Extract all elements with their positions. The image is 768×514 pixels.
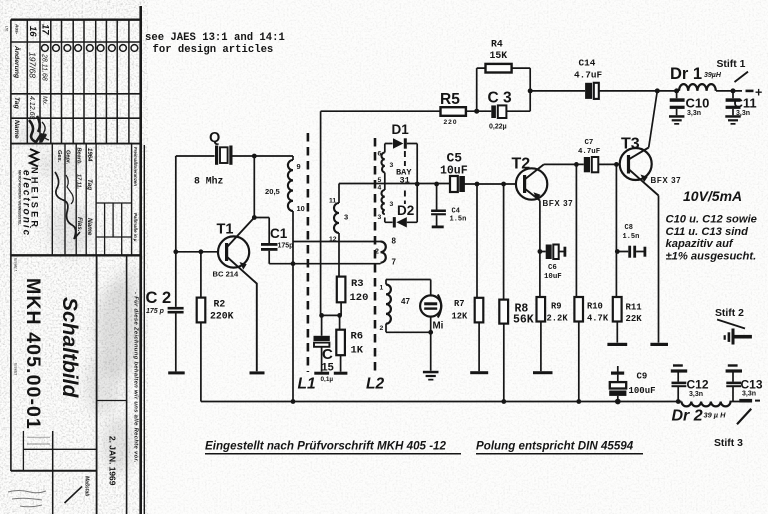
svg-text:C13: C13 [741,378,763,392]
svg-text:3: 3 [390,162,394,169]
svg-text:C4: C4 [452,208,460,216]
svg-text:Ersetzt: Ersetzt [14,363,18,376]
svg-text:Aus-: Aus- [15,23,20,35]
wire C3 right / R4 loop [477,68,531,111]
svg-text:Tag: Tag [86,179,93,190]
svg-text:3,3n: 3,3n [687,110,701,117]
grid row line 3 [11,93,141,95]
wire R3 bottom / rail3 [322,302,342,315]
svg-text:R2: R2 [214,299,226,310]
paper noise [0,0,148,514]
svg-text:T2: T2 [512,156,531,173]
svg-text:1.5n: 1.5n [450,216,467,224]
svg-text:kapazitiv auf: kapazitiv auf [666,238,734,250]
svg-text:197/68: 197/68 [28,52,38,78]
wire middle coil top link [338,184,340,277]
crystal Q [194,130,233,187]
svg-text:see JAES 13:1 and 14:1: see JAES 13:1 and 14:1 [145,32,285,44]
ground Mi [423,371,439,381]
svg-text:16: 16 [27,26,38,37]
svg-text:C11 u. C13 sind: C11 u. C13 sind [666,226,750,238]
capacitor C7 [578,139,600,172]
wire C6 branch [540,251,564,253]
svg-text:10uF: 10uF [544,273,562,281]
svg-text:8: 8 [392,237,397,246]
svg-text:175 p: 175 p [146,308,165,315]
svg-text:MKH 405.00-01: MKH 405.00-01 [22,278,44,430]
column lines [27,20,129,144]
svg-text:3: 3 [344,213,348,222]
svg-text:17.11.: 17.11. [76,174,82,190]
resistor R10 [574,297,608,324]
svg-text:C10 u. C12 sowie: C10 u. C12 sowie [666,214,757,226]
wire mid junction to C5 node [339,183,450,185]
inductor Dr1 [670,65,722,91]
change-index circles [42,45,138,52]
wire T3 emitter drop [658,196,660,343]
svg-text:C: C [322,346,333,363]
svg-text:Q: Q [209,130,220,146]
capacitor C9 [609,372,655,397]
svg-text:R9: R9 [551,302,562,312]
svg-text:Tag: Tag [13,97,20,110]
mini grid [96,203,132,255]
wire C4 stems [436,184,438,226]
svg-text:39 µ H: 39 µ H [704,411,727,420]
svg-text:0,22µ: 0,22µ [489,124,507,131]
SMUDGES [17,125,142,473]
transformer core L2 (dashed) [366,138,384,393]
svg-text:1964: 1964 [86,148,92,162]
inductor winding pins 8/7 (2 turns) [375,237,397,267]
svg-text:Schaltbild: Schaltbild [58,297,81,399]
svg-text:15K: 15K [490,50,508,61]
svg-text:10uF: 10uF [440,165,468,178]
svg-text:Flas.: Flas. [76,217,83,232]
wire D-loop left stubs [384,144,386,223]
diode D2 [393,203,414,228]
wire R2 drop [200,252,202,402]
inductor L2 winding upper (pins 6/5, 3 turns) [378,151,394,185]
capacitor C6 [544,245,566,282]
wire R5 to C3 node [466,110,491,112]
svg-text:2: 2 [375,249,379,256]
svg-text:2.2K: 2.2K [547,314,569,324]
svg-text:R10: R10 [587,302,603,312]
wire C11 stems [732,91,734,115]
capacitor C3 [488,90,513,131]
svg-text:22K: 22K [626,314,643,324]
svg-text:7: 7 [392,258,397,267]
wire R8 vertical [503,184,505,402]
svg-text:C12: C12 [687,378,709,392]
svg-text:D1: D1 [392,122,410,137]
inductor Dr2 [672,402,731,425]
title block right border (double line) [139,6,142,514]
svg-text:220K: 220K [210,311,234,322]
svg-text:Stift 2: Stift 2 [715,308,744,319]
svg-text:28.11.68: 28.11.68 [41,53,48,81]
svg-text:4.12.68: 4.12.68 [28,96,35,119]
svg-text:R3: R3 [351,278,364,290]
grid row line 4 [11,117,141,119]
svg-text:BFX 37: BFX 37 [543,199,574,208]
grid row line 5 [11,143,141,145]
terminal bar T1 emitter [250,371,265,374]
wire feedback vertical [320,111,322,315]
wire coil20 bottom drop [292,211,294,402]
wire C13 stem [732,372,734,401]
transistor T1 (BC 214) [213,218,257,372]
svg-text:1: 1 [380,285,384,292]
wire T2 collector line to C7 and T3 base [544,163,620,165]
wire C1 branch [254,218,269,264]
svg-text:100uF: 100uF [629,386,656,396]
wire collector vertical T1 [253,156,255,218]
lower dividers [96,255,98,514]
sub-table header texts [56,147,138,242]
svg-text:R4: R4 [491,39,503,50]
wire rail2 (lower osc rail) [269,263,380,265]
svg-text:31: 31 [400,176,410,186]
resistor R7 [452,298,489,374]
svg-text:8 Mhz: 8 Mhz [194,176,224,187]
wire T2 emitter drop [539,201,541,298]
inductor middle winding (pins 11/12, 3 turns) [329,198,348,244]
svg-text:9: 9 [297,162,301,171]
ground C10 [669,115,684,125]
svg-text:C9: C9 [637,372,648,382]
svg-text:Name: Name [13,120,20,139]
transistor T3 (BFX 37) [620,136,682,196]
wire left vertical to C2 [175,156,177,307]
svg-text:BFX 37: BFX 37 [651,176,682,185]
svg-text:3,3n: 3,3n [689,391,703,398]
wire top supply rail to R5 [321,110,441,112]
svg-text:Paßmaße in µ: Paßmaße in µ [133,213,138,242]
svg-text:11: 11 [329,198,336,205]
wire D1 top link [385,143,417,145]
BAY 31 label + dashed link [396,151,412,204]
svg-text:3,3n: 3,3n [742,391,756,398]
svg-text:C10: C10 [686,96,710,111]
capacitor C10 [670,96,710,117]
svg-text:C14: C14 [579,58,596,69]
svg-text:C11: C11 [734,96,757,111]
bottom-left pencil scribbles [8,491,46,507]
svg-text:10V/5mA: 10V/5mA [683,188,742,204]
wire D-loop right vertical [416,144,418,223]
svg-text:4.7uF: 4.7uF [574,70,603,81]
svg-text:- Für diese Zeichnung behalten: - Für diese Zeichnung behalten wir uns a… [133,292,139,463]
wire R7 vertical [477,184,479,371]
resistor R5 [440,91,466,126]
JAES note [145,32,285,56]
svg-text:T3: T3 [621,136,640,153]
wire C10 stems [676,91,678,115]
svg-text:2. JAN. 1969: 2. JAN. 1969 [108,436,118,486]
resistor R8 [499,300,534,327]
svg-text:12K: 12K [452,312,469,322]
svg-text:56K: 56K [513,314,534,327]
wire C12 stem [677,372,679,401]
capacitor C2 [146,289,185,374]
capacitor C1 [261,226,293,251]
wire R10 vertical [576,164,578,401]
grid row line 2 [11,41,141,43]
capacitor C5 [440,151,468,193]
resistor R3 [337,277,369,304]
SENNHEISER logo (rotated) [18,149,40,237]
svg-text:20,5: 20,5 [265,187,281,196]
annotation matched caps [666,214,757,263]
svg-text:175p: 175p [278,243,294,250]
svg-text:Maßstab: Maßstab [84,476,90,496]
svg-text:6: 6 [378,151,382,158]
wire crystal rail [176,155,293,157]
svg-text:Eingestellt nach Prüfvorschr: Eingestellt nach Prüfvorschrift MKH 405 … [205,440,447,453]
svg-text:2: 2 [380,325,384,332]
wire C8 branch [617,251,643,253]
wire C5 right to T2 base [465,183,517,185]
svg-text:Freimaßtoleranzen: Freimaßtoleranzen [133,147,138,186]
svg-text:Ges.: Ges. [56,150,62,163]
svg-text:L2: L2 [366,376,384,393]
bottom note 2 [476,440,643,454]
ground C11 [725,115,740,125]
svg-text:Name: Name [86,218,93,236]
svg-text:MIKROPHONWERK WENNEBOSTEL: MIKROPHONWERK WENNEBOSTEL [18,170,22,225]
resistor R2 [197,298,234,323]
wire C14 to Dr1 node [599,90,679,92]
rotated row labels [13,23,51,139]
svg-text:1.5n: 1.5n [623,233,640,241]
wire C9 stems [617,366,619,402]
svg-text:4.7uF: 4.7uF [578,148,600,156]
wire C3 node to C14 [530,90,585,92]
capacitor C15 [314,336,334,383]
wire C15 stems [321,315,323,371]
svg-text:Stift 3: Stift 3 [714,438,743,449]
thick section line [11,254,141,256]
wire C8/R11 vertical [615,164,618,342]
svg-text:220: 220 [444,119,458,126]
svg-text:120: 120 [350,292,369,304]
wire T3 collector riser [649,91,658,148]
microphone capsule Mi [420,295,444,332]
svg-text:10: 10 [297,204,305,213]
Massstab slash [65,486,83,503]
bottom-left field lines [22,431,24,471]
svg-text:47: 47 [401,297,410,306]
wire R9 bottom [540,322,542,372]
svg-text:Gepr.: Gepr. [65,150,71,165]
svg-text:4.7K: 4.7K [587,314,609,324]
Stift 2 terminal [715,308,752,345]
diode D1 [392,122,410,149]
svg-text:Stift 1: Stift 1 [717,59,746,70]
svg-text:Dr 1: Dr 1 [670,65,702,83]
svg-text:Polung entspricht DIN 45594: Polung entspricht DIN 45594 [476,440,634,453]
svg-text:R6: R6 [351,331,364,343]
capacitor C11 [726,96,757,117]
svg-text:3: 3 [378,214,382,221]
svg-text:3: 3 [390,201,394,208]
svg-text:C1: C1 [270,226,288,241]
svg-text:1K: 1K [351,345,364,357]
svg-text:17: 17 [40,24,51,35]
capacitor C12 [671,364,709,398]
svg-text:C 3: C 3 [488,90,513,107]
svg-text:Ersatz f.: Ersatz f. [14,258,18,272]
inductor L2 winding lower (pins 4/3, 3 turns) [378,185,394,222]
sub-table columns [52,144,131,256]
svg-text:R11: R11 [626,303,643,313]
svg-text:±1% ausgesucht.: ±1% ausgesucht. [666,251,757,263]
svg-text:5: 5 [378,177,382,184]
svg-text:L1: L1 [298,376,316,393]
svg-text:D2: D2 [397,203,414,218]
wire rail1 (upper osc rail) [293,241,381,243]
svg-text:0,1µ: 0,1µ [321,376,334,383]
left margin tiny marks [5,26,18,376]
resistor R9 [533,297,568,374]
grid row line top [11,19,141,21]
svg-text:Lfd.: Lfd. [5,26,9,32]
svg-text:C7: C7 [585,139,594,147]
svg-text:Änderung: Änderung [13,45,21,79]
Stift 3 terminal [714,399,760,449]
svg-text:R7: R7 [454,299,465,309]
wire Dr1 right to Stift1 [716,90,742,92]
svg-text:4: 4 [378,185,382,192]
title block left border [10,20,12,472]
svg-text:BC 214: BC 214 [213,270,240,279]
signature scribbles [29,116,80,239]
Stift 1 [717,59,763,100]
svg-text:Mi: Mi [433,321,444,332]
capacitor C13 [726,364,763,397]
inductor Mi winding (pins 1/2, 47 turns) [380,285,411,333]
wire Mi loop [386,280,431,371]
inductor L1 winding 20,5 (pins 9/10) [265,156,305,213]
wire R6 stems [340,315,341,371]
svg-text:12: 12 [329,236,337,243]
wire T1 base rail [176,251,219,253]
svg-text:C6: C6 [548,264,557,272]
svg-text:R5: R5 [440,91,460,108]
svg-text:Bearb.: Bearb. [76,148,82,166]
terminal bar T3 emitter [650,343,668,346]
capacitor C4 [431,208,466,229]
resistor R4 [486,39,512,73]
resistor R11 [607,297,642,346]
svg-text:T1: T1 [217,222,234,238]
transformer core L1 (dashed) [298,133,316,393]
capacitor C8 [623,224,647,258]
wire D2 bottom link [385,221,417,223]
bottom note 1 [205,440,461,454]
svg-text:C8: C8 [625,224,633,232]
svg-text:Mx.: Mx. [41,96,47,106]
wire bottom supply rail [201,401,740,403]
resistor R6 [334,330,364,375]
svg-text:15: 15 [322,362,334,374]
svg-text:39µH: 39µH [704,72,722,79]
svg-text:Dr 2: Dr 2 [672,408,703,425]
capacitor C14 [574,58,603,99]
big rotated titles [22,278,139,496]
transistor T2 (BFX 37) [512,156,574,209]
svg-text:C5: C5 [447,151,463,166]
svg-text:C 2: C 2 [146,289,172,307]
svg-text:for design articles: for design articles [153,44,274,56]
